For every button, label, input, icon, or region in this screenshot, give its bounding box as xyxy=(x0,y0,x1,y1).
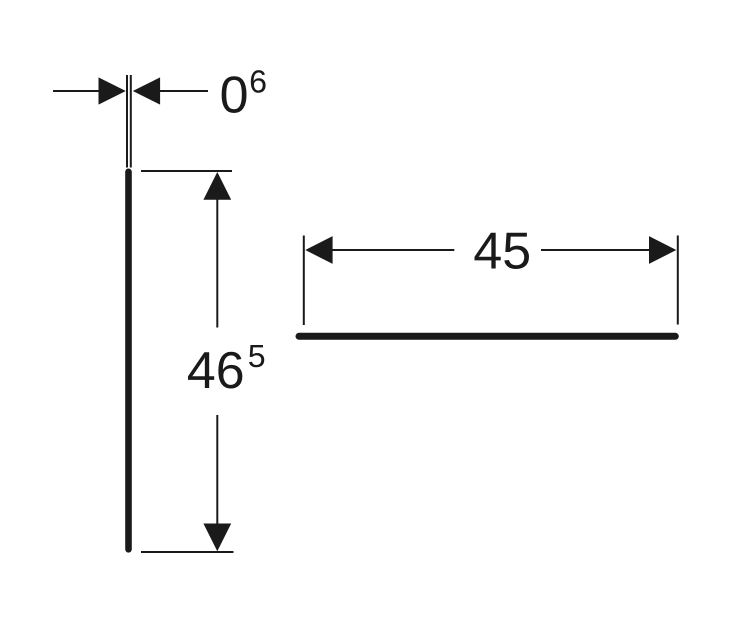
height arrow up xyxy=(203,172,231,200)
height extension line bottom xyxy=(141,551,234,553)
thickness extension line left xyxy=(126,75,128,168)
thickness arrow left (points right) xyxy=(99,77,126,104)
label 46 xyxy=(188,352,242,389)
label 45 xyxy=(474,233,528,269)
label superscript 5 xyxy=(249,345,264,367)
thickness extension line right xyxy=(130,75,132,168)
panel side profile (thick vertical bar) xyxy=(125,172,132,550)
height dim line lower segment xyxy=(216,415,218,526)
panel top view (thick horizontal bar) xyxy=(299,333,675,340)
thickness arrow right (points left) xyxy=(133,77,160,104)
label 0 xyxy=(222,76,247,113)
label superscript 6 xyxy=(251,70,266,93)
thickness dim line right xyxy=(156,90,208,92)
thickness dim line left xyxy=(53,90,104,92)
width arrow left (points left) xyxy=(305,236,332,264)
width extension line left xyxy=(303,236,305,326)
height dim line upper segment xyxy=(216,198,218,328)
width arrow right (points right) xyxy=(649,236,676,264)
width dim line right segment xyxy=(541,249,651,251)
width extension line right xyxy=(677,236,679,325)
height extension line top xyxy=(141,170,232,172)
width dim line left segment xyxy=(331,249,454,251)
height arrow down xyxy=(203,524,231,552)
